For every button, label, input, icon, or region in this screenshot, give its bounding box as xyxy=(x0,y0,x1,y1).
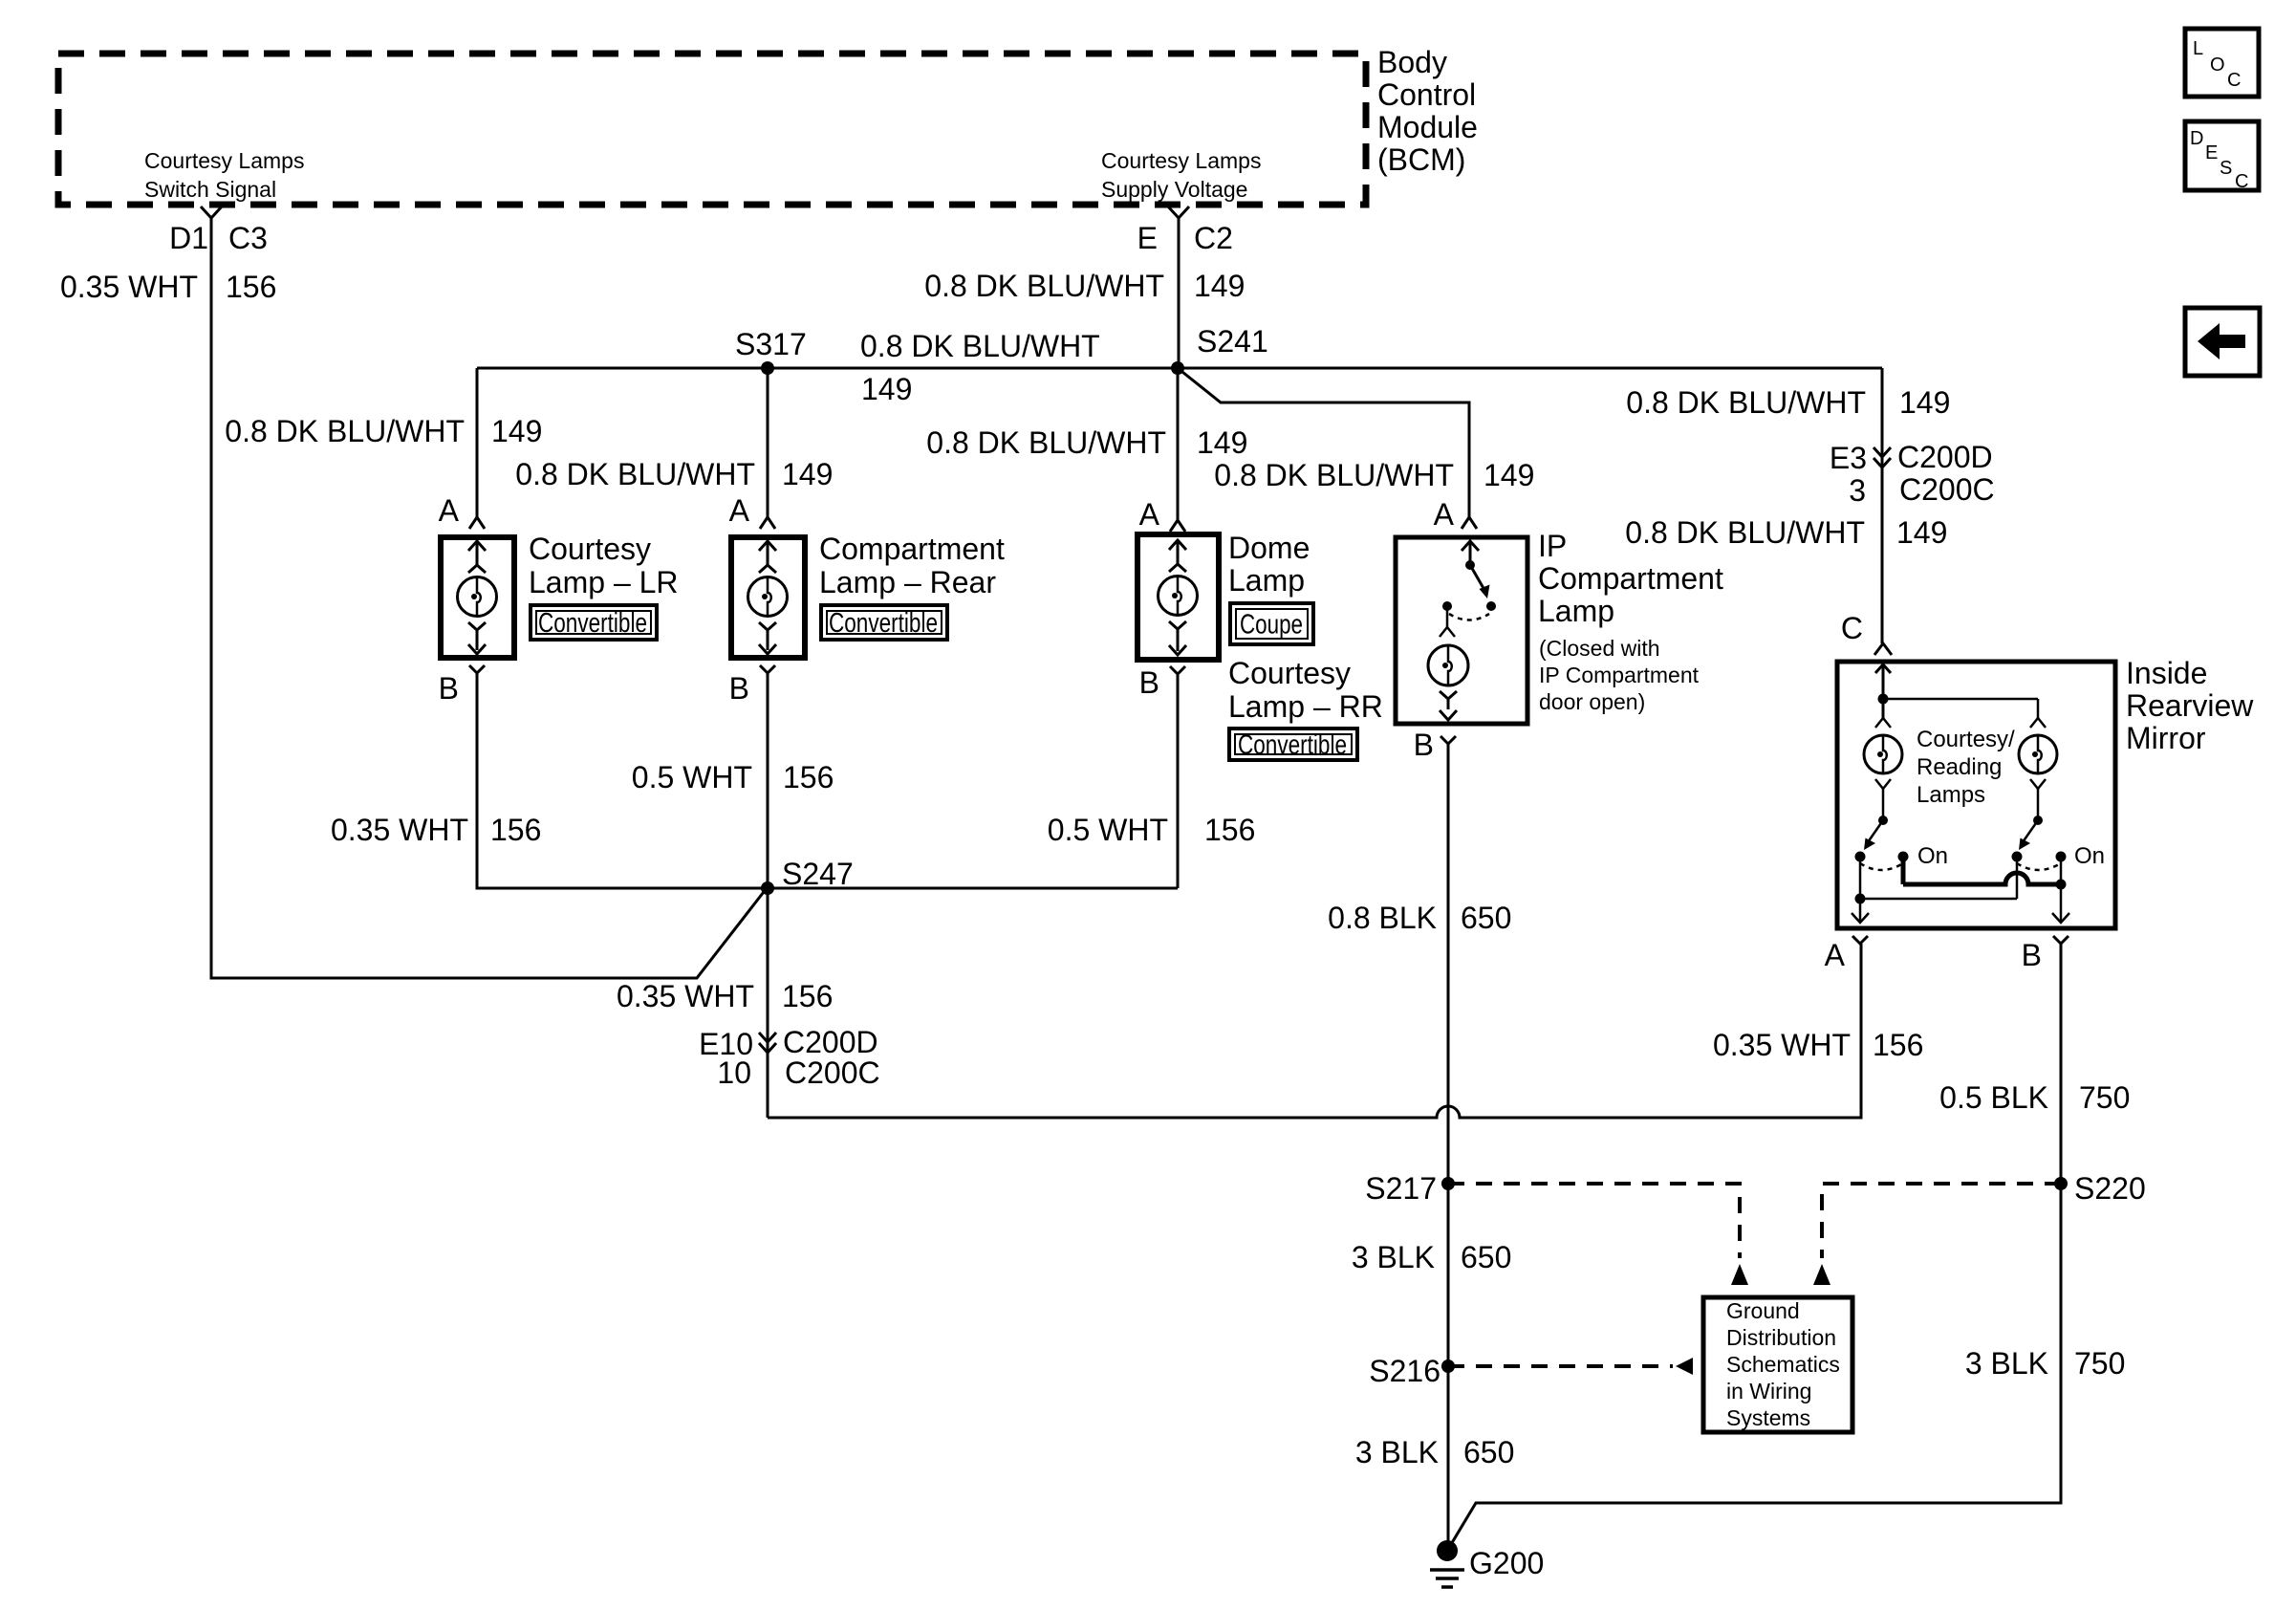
svg-text:A: A xyxy=(439,493,460,528)
svg-text:D1: D1 xyxy=(169,221,208,255)
svg-text:3 BLK: 3 BLK xyxy=(1355,1435,1439,1469)
wire branch down to Compartment Lamp Rear xyxy=(767,368,769,517)
svg-text:L: L xyxy=(2193,38,2203,59)
in-line connector C200D/C200C pin E3/3 (double chevron) xyxy=(1874,447,1891,457)
mirror switch common bus (thin) xyxy=(2016,857,2019,899)
DESC legend box xyxy=(2185,121,2259,190)
connector pin C (inside rearview mirror) xyxy=(1874,643,1892,655)
svg-text:in Wiring: in Wiring xyxy=(1726,1379,1811,1403)
Convertible tag (dome/RR) xyxy=(1229,729,1357,760)
svg-text:Convertible: Convertible xyxy=(538,608,647,639)
svg-text:0.8 BLK: 0.8 BLK xyxy=(1328,901,1437,935)
svg-text:Supply Voltage: Supply Voltage xyxy=(1101,177,1247,202)
svg-text:S247: S247 xyxy=(782,857,854,891)
svg-text:door open): door open) xyxy=(1539,689,1645,714)
wire LR lamp B down to S247 bus xyxy=(477,673,1178,888)
svg-text:C2: C2 xyxy=(1194,221,1233,255)
svg-text:Lamp: Lamp xyxy=(1538,594,1614,628)
svg-text:(Closed with: (Closed with xyxy=(1539,636,1660,661)
svg-text:O: O xyxy=(2210,54,2225,76)
wire dome lamp B down to S247 bus xyxy=(1177,674,1180,888)
connector pin E/C2 (BCM output, Y connector) xyxy=(1168,207,1189,218)
dome lamp xyxy=(1137,534,1219,660)
svg-text:0.5 WHT: 0.5 WHT xyxy=(1048,813,1168,847)
svg-text:Mirror: Mirror xyxy=(2126,721,2206,755)
mirror On-contact bus (thick, hops right switch wire) xyxy=(1901,857,1906,884)
switch arm (IP lamp door switch) xyxy=(1470,565,1484,590)
connector pin D1/C3 (BCM output, Y connector) xyxy=(201,207,222,218)
svg-text:Lamp – RR: Lamp – RR xyxy=(1228,689,1383,724)
svg-text:Control: Control xyxy=(1377,77,1476,112)
svg-text:3: 3 xyxy=(1849,473,1866,508)
svg-text:C: C xyxy=(2235,171,2248,192)
svg-text:0.8 DK BLU/WHT: 0.8 DK BLU/WHT xyxy=(225,414,465,448)
svg-text:S216: S216 xyxy=(1369,1354,1440,1388)
connector pin B (Dome Lamp) xyxy=(1170,666,1185,674)
svg-text:E: E xyxy=(2205,142,2218,163)
mirror right courtesy/reading lamp xyxy=(2030,718,2046,728)
svg-text:D: D xyxy=(2190,128,2203,149)
splice S216 xyxy=(1441,1360,1455,1373)
svg-text:S: S xyxy=(2220,158,2232,179)
connector pin A (Compartment Lamp Rear) xyxy=(760,517,775,529)
svg-text:A: A xyxy=(1139,497,1160,532)
svg-text:149: 149 xyxy=(1896,515,1947,550)
svg-text:0.35 WHT: 0.35 WHT xyxy=(60,270,198,304)
svg-text:0.8 DK BLU/WHT: 0.8 DK BLU/WHT xyxy=(1626,385,1866,420)
svg-text:0.35 WHT: 0.35 WHT xyxy=(617,979,754,1013)
dashed switch travel arc (IP lamp) xyxy=(1449,614,1489,620)
svg-text:On: On xyxy=(2074,843,2105,869)
svg-text:156: 156 xyxy=(782,979,833,1013)
back-arrow legend box xyxy=(2185,308,2260,376)
connector pin A (Courtesy Lamp LR) xyxy=(469,517,485,529)
svg-text:S241: S241 xyxy=(1197,324,1268,359)
wire S247 down to C200 connector E10 xyxy=(767,888,769,1118)
svg-text:S217: S217 xyxy=(1365,1171,1437,1206)
svg-text:Compartment: Compartment xyxy=(1538,561,1723,596)
wire mirror B down to G200 xyxy=(1447,944,2061,1551)
svg-text:Ground: Ground xyxy=(1726,1298,1800,1323)
wire IP lamp B down to G200 xyxy=(1447,744,1450,1551)
connector pin B (Courtesy Lamp LR) xyxy=(469,665,485,673)
in-line connector C200D/C200C pin E10/10 (double chevron) xyxy=(759,1033,776,1042)
connector pin A (IP compartment lamp) xyxy=(1462,517,1477,529)
svg-text:0.35 WHT: 0.35 WHT xyxy=(331,813,468,847)
wire 0.35 WHT 156 from BCM D1/C3 down, across to S247 xyxy=(211,218,767,978)
wire 0.8 DK BLU/WHT 149 from BCM E/C2 down to S241 xyxy=(1178,218,1180,368)
dashed reference from S216 to ground distribution schematics xyxy=(1448,1364,1673,1368)
connector pin B (Compartment Lamp Rear) xyxy=(760,665,775,673)
svg-text:0.5 WHT: 0.5 WHT xyxy=(632,760,752,794)
svg-text:E3: E3 xyxy=(1830,441,1867,475)
svg-text:Lamps: Lamps xyxy=(1917,782,1985,808)
wire dome lamp branch below S241 xyxy=(1177,368,1180,520)
splice S241 xyxy=(1171,361,1184,375)
svg-text:Convertible: Convertible xyxy=(829,608,938,639)
dashed reference from S217 to ground distribution schematics xyxy=(1448,1184,1740,1258)
switch pivot (IP lamp) xyxy=(1465,560,1475,570)
svg-text:Distribution: Distribution xyxy=(1726,1325,1836,1350)
svg-text:0.8 DK BLU/WHT: 0.8 DK BLU/WHT xyxy=(860,329,1100,363)
svg-text:Schematics: Schematics xyxy=(1726,1352,1840,1377)
svg-text:Courtesy: Courtesy xyxy=(529,532,651,566)
svg-text:650: 650 xyxy=(1463,1435,1514,1469)
svg-text:C: C xyxy=(2227,70,2241,91)
svg-text:149: 149 xyxy=(782,457,833,491)
mirror left switch xyxy=(1882,802,1885,820)
ground distribution schematics reference box xyxy=(1703,1297,1852,1432)
svg-text:Dome: Dome xyxy=(1228,531,1310,565)
svg-text:C200D: C200D xyxy=(783,1025,878,1059)
svg-text:Convertible: Convertible xyxy=(1238,730,1347,761)
svg-text:Inside: Inside xyxy=(2126,656,2207,690)
svg-text:156: 156 xyxy=(783,760,834,794)
svg-text:IP Compartment: IP Compartment xyxy=(1539,663,1700,687)
svg-text:156: 156 xyxy=(1873,1028,1923,1062)
svg-text:C3: C3 xyxy=(228,221,268,255)
mirror output B arrow xyxy=(2060,884,2063,923)
svg-text:10: 10 xyxy=(717,1055,751,1090)
connector pin A (Dome Lamp) xyxy=(1170,520,1185,532)
svg-text:Lamp – Rear: Lamp – Rear xyxy=(819,565,996,599)
splice S247 xyxy=(761,881,774,895)
ground G200 xyxy=(1437,1540,1458,1561)
svg-text:149: 149 xyxy=(491,414,542,448)
Body Control Module (BCM) dashed box xyxy=(58,54,1366,205)
svg-text:On: On xyxy=(1917,843,1948,869)
Convertible tag (LR) xyxy=(531,605,657,640)
svg-text:E: E xyxy=(1137,221,1158,255)
svg-text:Lamp: Lamp xyxy=(1228,563,1305,598)
svg-text:A: A xyxy=(729,493,750,528)
svg-text:A: A xyxy=(1434,497,1455,532)
svg-text:0.35 WHT: 0.35 WHT xyxy=(1713,1028,1851,1062)
wire C200 across to mirror pin A (hops IP lamp return) xyxy=(768,944,1861,1118)
svg-text:S220: S220 xyxy=(2074,1171,2146,1206)
svg-text:156: 156 xyxy=(1204,813,1255,847)
Convertible tag (compartment) xyxy=(821,605,947,640)
svg-text:Courtesy Lamps: Courtesy Lamps xyxy=(144,148,304,173)
svg-text:C200C: C200C xyxy=(1899,472,1995,507)
svg-text:650: 650 xyxy=(1461,1240,1511,1274)
mirror output A arrow xyxy=(1859,857,1862,923)
svg-text:0.8 DK BLU/WHT: 0.8 DK BLU/WHT xyxy=(515,457,755,491)
svg-text:650: 650 xyxy=(1461,901,1511,935)
IP compartment lamp (door switch + bulb) xyxy=(1396,537,1527,724)
svg-text:149: 149 xyxy=(861,372,912,406)
wire branch down to Courtesy Lamp LR xyxy=(476,368,479,517)
svg-text:750: 750 xyxy=(2074,1346,2125,1381)
compartment lamp rear xyxy=(731,537,805,658)
svg-text:C200D: C200D xyxy=(1897,440,1993,474)
svg-text:B: B xyxy=(2022,938,2042,972)
connector pin B (IP compartment lamp) xyxy=(1440,736,1456,744)
connector pin A (mirror) xyxy=(1852,936,1868,944)
svg-text:A: A xyxy=(1825,938,1846,972)
svg-text:149: 149 xyxy=(1899,385,1950,420)
svg-text:Module: Module xyxy=(1377,110,1478,144)
svg-text:Compartment: Compartment xyxy=(819,532,1005,566)
wire S241 diagonal branch to IP compartment lamp xyxy=(1178,368,1469,517)
svg-text:149: 149 xyxy=(1194,269,1245,303)
svg-text:Reading: Reading xyxy=(1917,754,2002,780)
svg-text:Systems: Systems xyxy=(1726,1405,1810,1430)
connector pin B (mirror) xyxy=(2053,936,2069,944)
svg-text:750: 750 xyxy=(2079,1080,2130,1115)
svg-text:B: B xyxy=(1139,665,1159,700)
svg-text:Courtesy: Courtesy xyxy=(1228,656,1351,690)
dashed reference from S220 to ground distribution schematics xyxy=(1822,1184,2061,1258)
svg-text:G200: G200 xyxy=(1469,1546,1544,1580)
wire compartment lamp B down to S247 xyxy=(767,673,769,888)
svg-text:156: 156 xyxy=(226,270,276,304)
svg-text:0.8 DK BLU/WHT: 0.8 DK BLU/WHT xyxy=(924,269,1164,303)
courtesy lamp LR xyxy=(441,537,514,658)
wire supply bus horizontal S317-S241 to right corner xyxy=(477,367,1882,370)
splice S217 xyxy=(1441,1177,1455,1190)
svg-text:Courtesy Lamps: Courtesy Lamps xyxy=(1101,148,1261,173)
LOC legend box xyxy=(2185,29,2259,97)
svg-text:3 BLK: 3 BLK xyxy=(1965,1346,2048,1381)
svg-text:IP: IP xyxy=(1538,529,1567,563)
svg-text:Courtesy/: Courtesy/ xyxy=(1917,727,2015,752)
splice S220 xyxy=(2054,1177,2068,1190)
svg-text:Lamp – LR: Lamp – LR xyxy=(529,565,679,599)
mirror internal junction xyxy=(1878,694,1889,705)
svg-text:Switch Signal: Switch Signal xyxy=(144,177,276,202)
Coupe tag (dome) xyxy=(1230,603,1313,644)
wire supply bus right corner down to C200 connector and mirror xyxy=(1881,368,1884,643)
svg-text:Body: Body xyxy=(1377,45,1447,79)
svg-text:3 BLK: 3 BLK xyxy=(1352,1240,1435,1274)
svg-text:149: 149 xyxy=(1484,458,1534,492)
mirror right switch xyxy=(2037,802,2040,820)
svg-text:0.8 DK BLU/WHT: 0.8 DK BLU/WHT xyxy=(1214,458,1454,492)
svg-text:149: 149 xyxy=(1197,425,1247,460)
svg-text:0.5 BLK: 0.5 BLK xyxy=(1939,1080,2048,1115)
svg-text:C: C xyxy=(1841,611,1863,645)
svg-text:0.8 DK BLU/WHT: 0.8 DK BLU/WHT xyxy=(926,425,1166,460)
svg-text:Rearview: Rearview xyxy=(2126,688,2254,723)
svg-text:C200C: C200C xyxy=(785,1055,880,1090)
svg-text:Coupe: Coupe xyxy=(1240,610,1303,641)
svg-text:0.8 DK BLU/WHT: 0.8 DK BLU/WHT xyxy=(1625,515,1865,550)
svg-text:B: B xyxy=(1414,728,1434,762)
inside rearview mirror assembly xyxy=(1837,662,2115,928)
svg-text:B: B xyxy=(439,671,459,706)
svg-text:(BCM): (BCM) xyxy=(1377,142,1465,177)
splice S317 xyxy=(761,361,774,375)
svg-text:B: B xyxy=(729,671,749,706)
svg-text:S317: S317 xyxy=(735,327,807,361)
svg-text:156: 156 xyxy=(490,813,541,847)
mirror left courtesy/reading lamp xyxy=(1882,699,1885,719)
